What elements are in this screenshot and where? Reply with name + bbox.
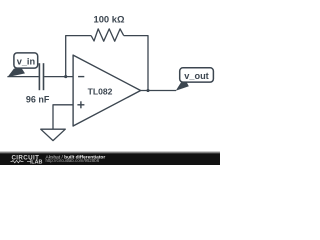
wire op-amp output <box>141 90 176 92</box>
capacitor C1 <box>39 63 43 90</box>
op-amp U1 triangle <box>73 55 141 126</box>
node B output junction dot <box>146 89 149 92</box>
op-amp U1 label TL082 <box>88 86 113 96</box>
value label 100 kOhm <box>94 13 125 24</box>
footer text line 1 <box>46 154 106 160</box>
wire plus input to ground <box>53 105 73 129</box>
footer text line 2 <box>46 158 100 163</box>
op-amp plus input symbol <box>77 101 84 108</box>
svg-text:TL082: TL082 <box>88 86 113 96</box>
footer bar <box>0 151 220 165</box>
svg-text:96 nF: 96 nF <box>26 95 50 105</box>
svg-text:v_out: v_out <box>184 71 209 81</box>
op-amp minus input symbol <box>78 76 84 78</box>
ground <box>41 129 66 140</box>
value label 96 nF <box>26 95 50 105</box>
svg-text:http://circuitlab.com/9528b6: http://circuitlab.com/9528b6 <box>46 158 100 163</box>
resistor R1 <box>91 29 124 41</box>
node A junction dot <box>64 75 67 78</box>
wire feedback left vertical and top <box>66 36 91 77</box>
svg-text:v_in: v_in <box>17 56 36 66</box>
CircuitLab logo <box>11 154 43 165</box>
wire v_in to capacitor <box>7 76 38 78</box>
wire capacitor to op-amp inverting input <box>44 76 73 78</box>
net flag v_in <box>8 53 38 77</box>
net flag v_out <box>176 68 214 91</box>
wire feedback right and vertical down <box>124 36 148 91</box>
svg-text:⊣LAB: ⊣LAB <box>27 160 43 165</box>
svg-text:100 kΩ: 100 kΩ <box>94 13 125 24</box>
